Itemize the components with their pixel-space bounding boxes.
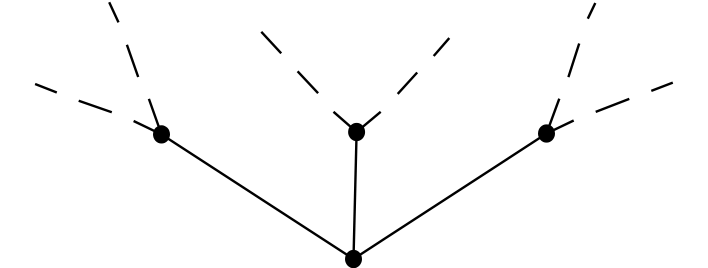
node middle child xyxy=(348,123,365,141)
node root xyxy=(345,250,362,268)
dashed branch left-steep xyxy=(109,2,161,134)
dashed branch middle-left xyxy=(261,32,356,132)
node right child xyxy=(538,124,555,142)
dashed branch middle-right xyxy=(357,38,450,132)
dashed branch right-shallow xyxy=(547,83,673,134)
wire root-middle solid edge xyxy=(354,132,357,259)
node left child xyxy=(153,125,170,143)
wire root-left solid edge xyxy=(162,134,354,259)
dashed branch left-shallow xyxy=(35,84,161,134)
dashed branch right-steep xyxy=(547,3,596,134)
wire root-right solid edge xyxy=(354,134,547,260)
